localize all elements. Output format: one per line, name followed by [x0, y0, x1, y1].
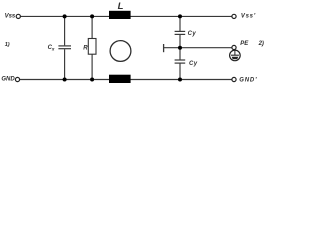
- svg-text:L: L: [118, 1, 124, 12]
- svg-text:x: x: [51, 46, 55, 51]
- svg-text:GND’: GND’: [239, 77, 257, 83]
- svg-text:Vss: Vss: [5, 14, 16, 20]
- svg-text:2): 2): [258, 41, 264, 47]
- svg-text:R: R: [83, 46, 88, 52]
- svg-text:Cy: Cy: [188, 31, 197, 37]
- svg-text:GND: GND: [1, 77, 15, 83]
- svg-text:PE: PE: [240, 41, 249, 47]
- svg-text:Cy: Cy: [189, 61, 198, 67]
- svg-text:Vss’: Vss’: [241, 13, 256, 19]
- svg-text:1): 1): [5, 42, 10, 48]
